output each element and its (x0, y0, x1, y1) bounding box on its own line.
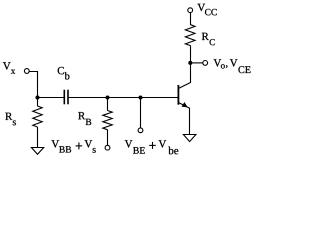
wire capacitor to base (69, 97, 178, 99)
terminal VBE (138, 128, 143, 133)
label VCC (197, 4, 216, 15)
wire Vx to junction (29, 72, 37, 98)
label Rs (5, 113, 16, 126)
wire VCC to RC (190, 13, 192, 25)
resistor Rs (33, 106, 42, 127)
label VBB+Vs (51, 140, 95, 153)
node collector output (188, 61, 192, 65)
plus sign (VBE label) (149, 144, 156, 146)
transistor Q1 emitter lead (179, 103, 190, 108)
terminal Vx (24, 69, 29, 74)
ground (Rs) (31, 148, 43, 155)
label Cb (58, 67, 70, 80)
label RB (78, 112, 91, 125)
label VBE+Vbe (125, 140, 179, 154)
wire junction to VBE terminal (140, 98, 142, 128)
label RC (202, 33, 215, 45)
node VBE junction (139, 96, 143, 100)
node base-left junction (36, 96, 40, 100)
terminal Vo (203, 61, 208, 66)
capacitor Cb (63, 90, 65, 105)
ground (emitter) (183, 135, 196, 142)
transistor Q1 collector lead (179, 83, 191, 89)
plus sign (VBB label) (76, 145, 83, 147)
resistor Rs lead (37, 98, 39, 107)
label Vx (3, 62, 15, 74)
resistor RC (185, 25, 195, 46)
resistor RB (103, 111, 112, 130)
terminal VBB (105, 145, 110, 150)
transistor Q1 base bar (178, 85, 180, 105)
wire junction to capacitor (38, 97, 64, 99)
terminal VCC (188, 8, 193, 13)
wire Rs to ground (37, 127, 39, 148)
wire RB to VBB terminal (107, 130, 109, 145)
node RB junction (106, 96, 110, 100)
resistor RB lead (107, 98, 109, 111)
transistor Q1 emitter arrow (182, 102, 188, 107)
wire node to Vo terminal (190, 62, 202, 64)
wire node to collector (190, 63, 192, 83)
wire RC to collector node (190, 46, 192, 64)
label Vo,VCE (214, 59, 251, 73)
wire emitter to ground (189, 108, 191, 135)
